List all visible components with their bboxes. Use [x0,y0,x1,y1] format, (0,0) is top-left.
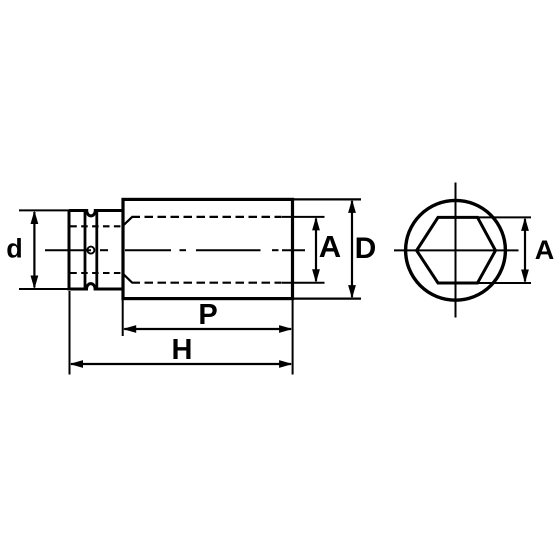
dimension A (end) arrow [521,217,529,283]
dimension P extension lines [122,300,124,336]
dimension A (side) arrow [312,217,320,283]
svg-text:D: D [355,232,377,265]
end view vertical center line [455,183,457,318]
bore hidden line top (dashed) [132,216,282,218]
drive stub groove edge right [95,211,98,290]
hex bore [417,217,496,283]
end view outer circle [406,200,506,300]
ball detent hole [87,247,94,254]
dimension H extension line [69,291,71,375]
svg-text:d: d [6,234,23,264]
drive stub outline [69,211,123,290]
dimension D extension lines [294,198,361,200]
dimension A (side) extension lines [282,216,325,218]
bore chamfer bottom [124,274,133,282]
bore chamfer top [124,217,133,225]
dimension D arrow [348,199,356,298]
center line (side view axis) [45,249,305,251]
dimension P arrow [123,325,293,333]
drive stub hidden edge bottom (dashed) [70,272,122,274]
drive stub hidden edge top (dashed) [70,225,122,227]
bore hidden line bottom (dashed) [132,282,282,284]
end view horizontal center line [394,249,519,251]
dimension H arrow [70,360,293,368]
socket body outline [123,199,293,298]
svg-text:P: P [198,299,217,331]
dimension d extension lines [19,209,69,211]
drive stub groove edge left [84,211,87,290]
svg-text:A: A [535,235,555,265]
dimension A (end) extension lines [478,216,532,218]
dimension d arrow [31,211,39,290]
svg-text:A: A [319,229,341,264]
svg-text:H: H [172,334,193,366]
